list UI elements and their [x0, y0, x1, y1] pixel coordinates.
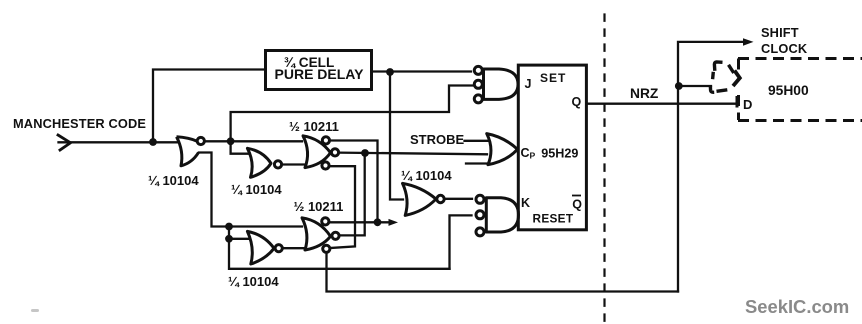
svg-text:¼ 10104: ¼ 10104 [231, 182, 282, 197]
svg-text:½ 10211: ½ 10211 [294, 199, 344, 214]
svg-text:CP: CP [521, 146, 536, 161]
svg-text:SET: SET [540, 71, 566, 85]
svg-text:½ 10211: ½ 10211 [289, 119, 339, 134]
svg-text:K: K [521, 196, 530, 210]
svg-text:MANCHESTER CODE: MANCHESTER CODE [13, 116, 146, 131]
svg-text:STROBE: STROBE [410, 132, 465, 147]
svg-text:¼ 10104: ¼ 10104 [228, 274, 279, 289]
svg-text:SHIFT: SHIFT [761, 25, 799, 40]
svg-text:PURE DELAY: PURE DELAY [275, 66, 365, 82]
svg-text:CLOCK: CLOCK [761, 41, 808, 56]
svg-text:NRZ: NRZ [630, 86, 659, 101]
svg-text:95H00: 95H00 [768, 83, 809, 98]
svg-text:SeekIC.com: SeekIC.com [745, 296, 849, 317]
svg-text:Q: Q [572, 198, 582, 212]
svg-text:95H29: 95H29 [541, 147, 578, 161]
svg-text:Q: Q [572, 95, 582, 109]
svg-text:D: D [743, 97, 752, 112]
svg-text:¼ 10104: ¼ 10104 [148, 173, 199, 188]
svg-text:¼ 10104: ¼ 10104 [401, 168, 452, 183]
svg-text:J: J [525, 77, 532, 91]
svg-text:RESET: RESET [533, 212, 574, 226]
